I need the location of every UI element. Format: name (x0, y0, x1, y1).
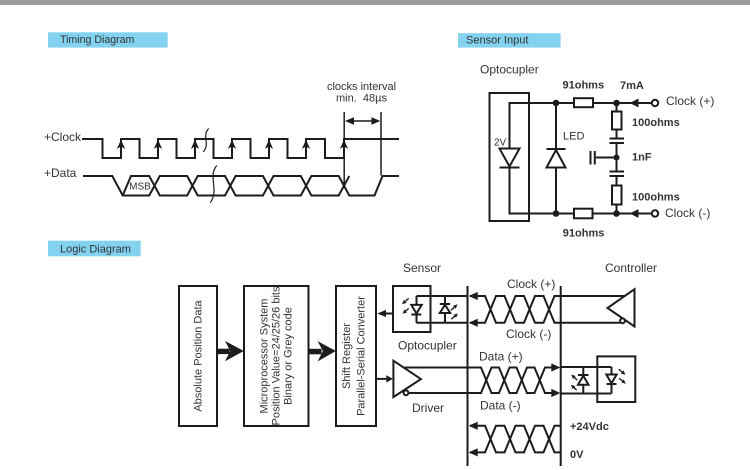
svg-text:91ohms: 91ohms (563, 79, 605, 91)
svg-text:+24Vdc: +24Vdc (570, 421, 609, 433)
svg-text:7mA: 7mA (620, 80, 644, 92)
svg-text:1nF: 1nF (632, 151, 652, 163)
svg-text:Binary or Grey code: Binary or Grey code (283, 307, 295, 405)
svg-text:100ohms: 100ohms (632, 117, 680, 129)
svg-text:2V: 2V (494, 137, 507, 148)
svg-text:Logic Diagram: Logic Diagram (60, 243, 131, 255)
svg-text:min. 48µs: min. 48µs (336, 92, 387, 104)
svg-text:Data (+): Data (+) (479, 350, 523, 364)
svg-text:91ohms: 91ohms (563, 228, 605, 240)
svg-text:0V: 0V (570, 449, 584, 461)
svg-text:Absolute Position Data: Absolute Position Data (193, 299, 205, 411)
svg-text:Controller: Controller (605, 261, 657, 275)
svg-text:Clock (+): Clock (+) (666, 94, 714, 108)
svg-text:Data (-): Data (-) (480, 398, 521, 412)
svg-text:Driver: Driver (412, 401, 444, 415)
svg-text:Sensor: Sensor (403, 261, 441, 275)
svg-text:LED: LED (563, 131, 584, 143)
svg-text:Optocupler: Optocupler (398, 338, 457, 352)
svg-text:Clock (-): Clock (-) (665, 206, 710, 220)
svg-text:Parallel-Serial Converter: Parallel-Serial Converter (356, 296, 368, 416)
svg-text:+Clock: +Clock (44, 130, 82, 144)
svg-text:Timing Diagram: Timing Diagram (60, 34, 135, 46)
svg-text:Position Value=24/25/26 bits: Position Value=24/25/26 bits (270, 286, 282, 425)
svg-text:MSB: MSB (129, 181, 151, 192)
svg-text:Sensor Input: Sensor Input (466, 35, 528, 47)
svg-text:+Data: +Data (44, 166, 77, 180)
svg-text:Clock (-): Clock (-) (506, 327, 551, 341)
svg-text:Shift Register: Shift Register (341, 323, 353, 389)
svg-text:100ohms: 100ohms (632, 192, 680, 204)
svg-text:Microprocessor System: Microprocessor System (259, 299, 271, 414)
svg-text:Optocupler: Optocupler (480, 62, 539, 76)
svg-text:Clock (+): Clock (+) (507, 277, 555, 291)
